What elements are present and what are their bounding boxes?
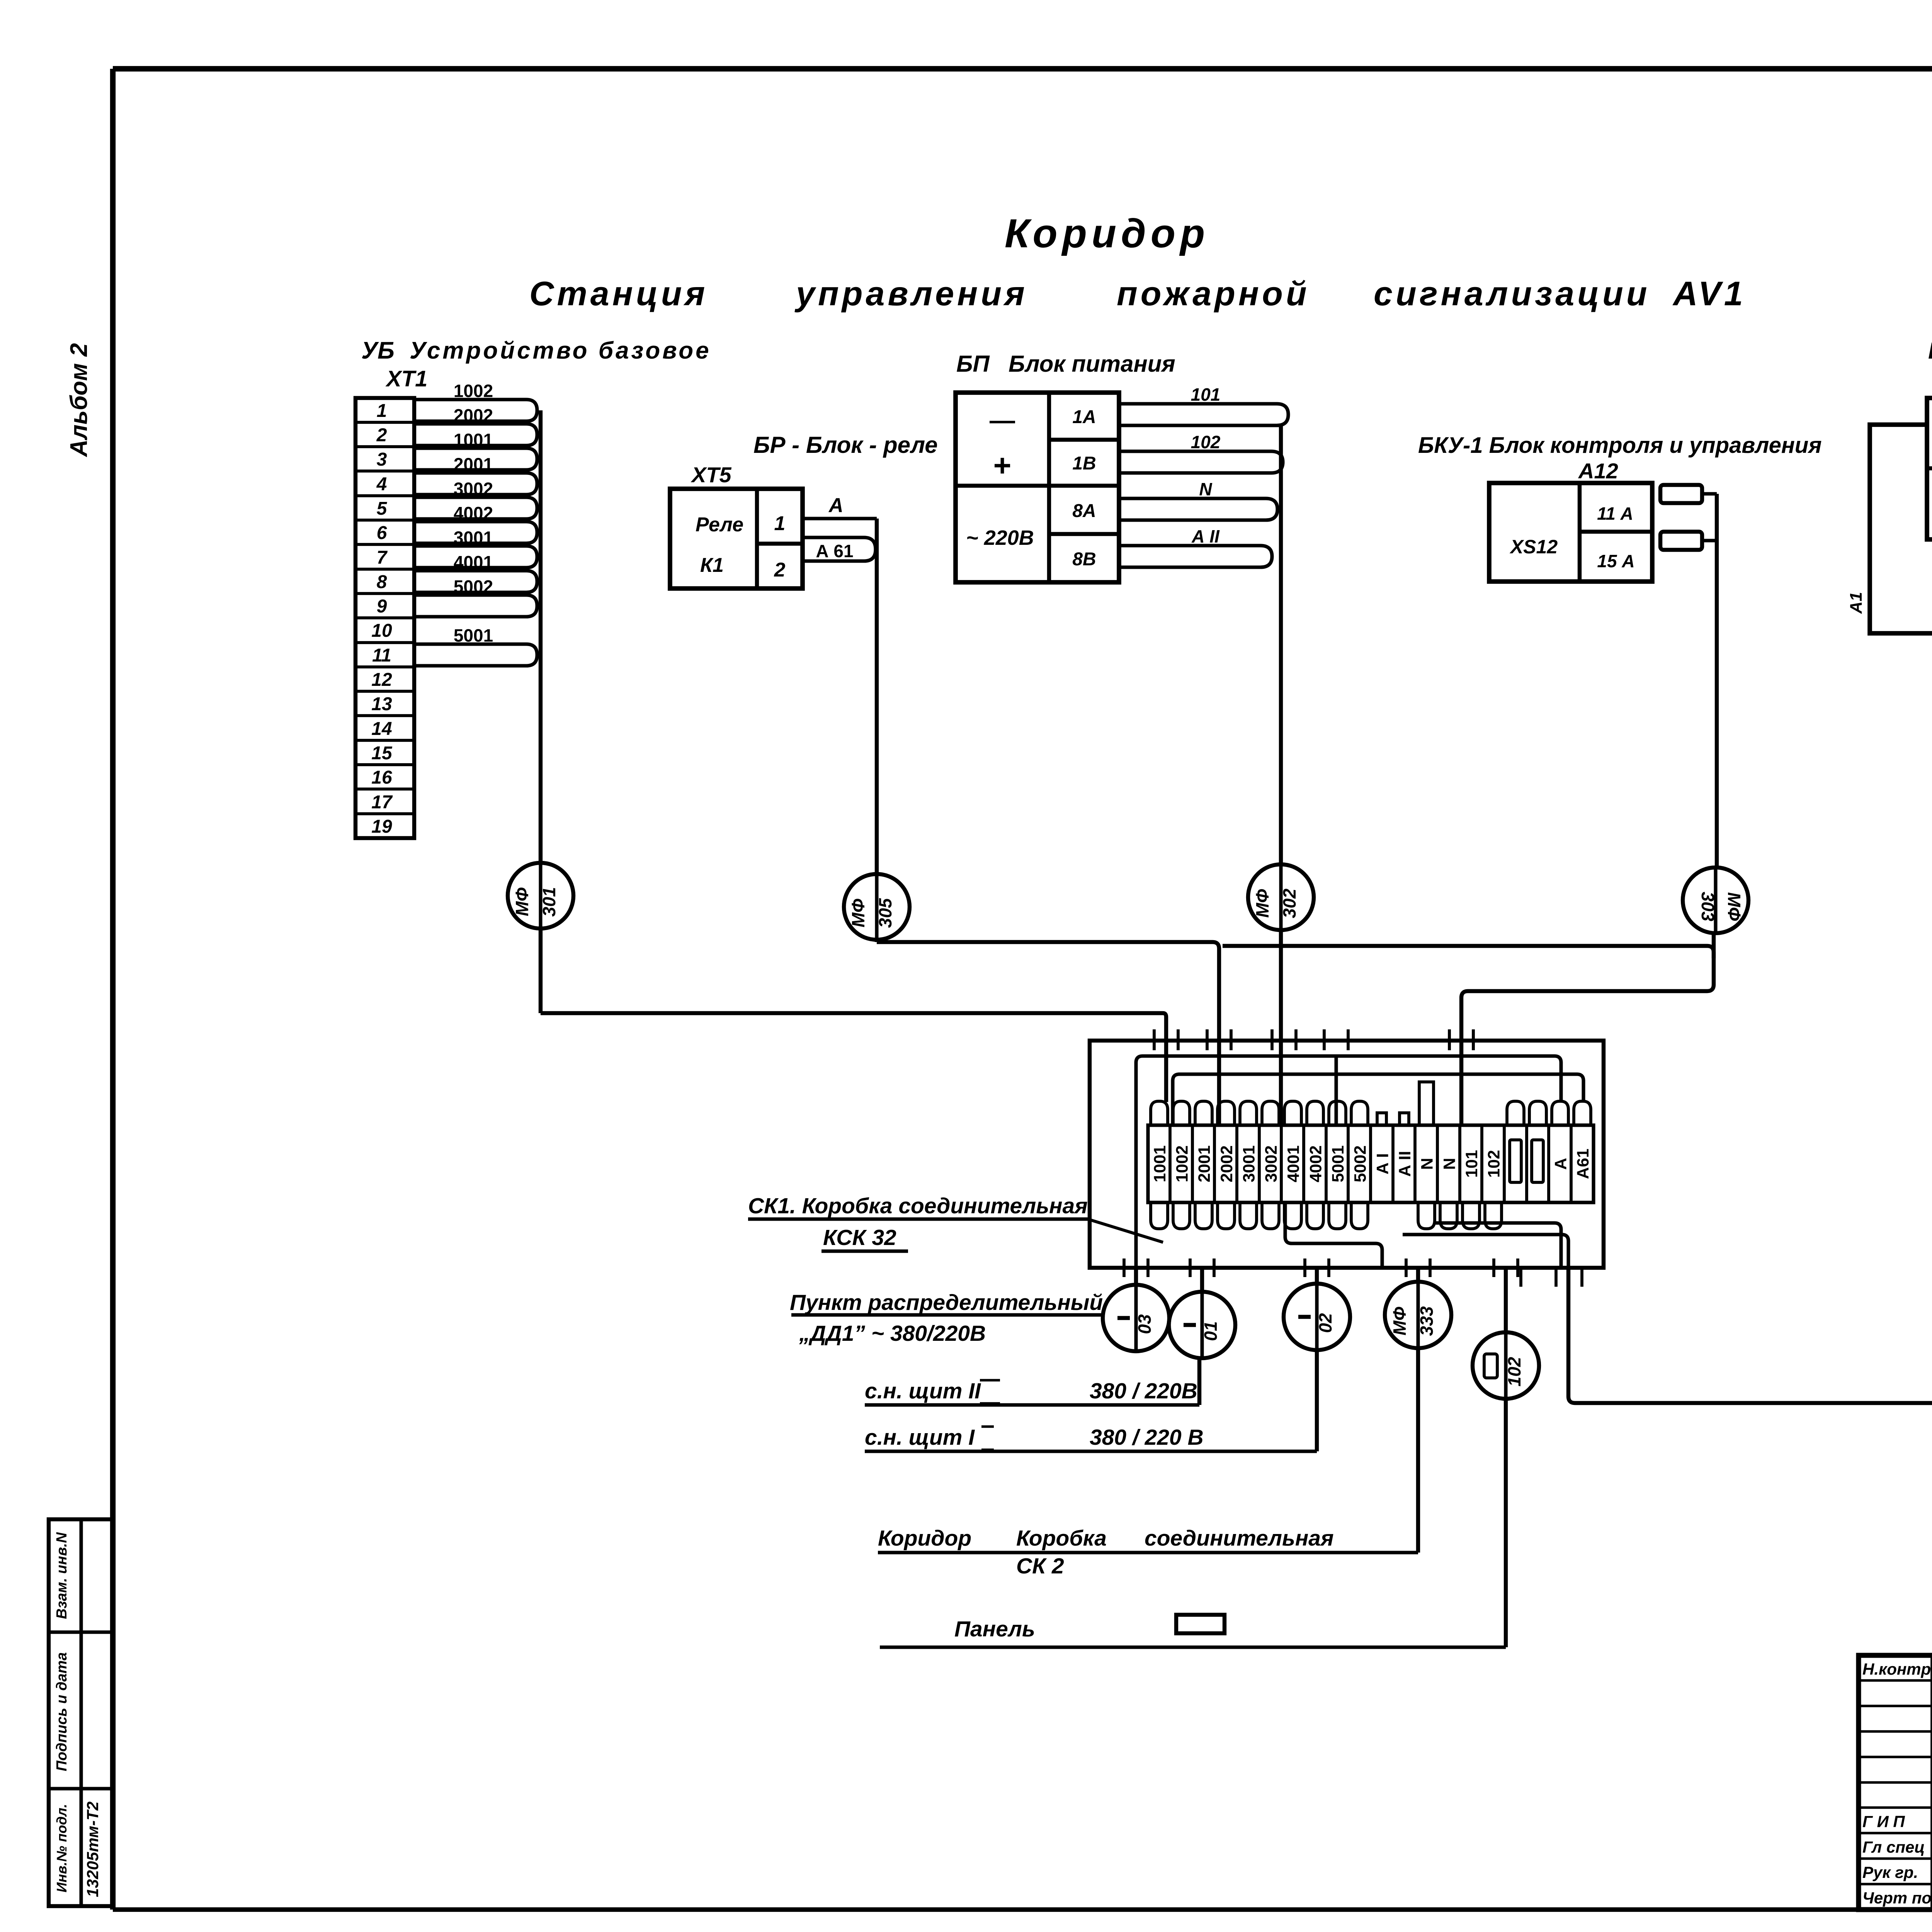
svg-text:8В: 8В [1072, 549, 1096, 570]
svg-text:15 А: 15 А [1597, 551, 1634, 571]
svg-text:9: 9 [377, 596, 387, 617]
svg-text:управления: управления [794, 274, 1028, 313]
svg-text:1: 1 [774, 512, 786, 535]
svg-text:Г И П: Г И П [1862, 1813, 1905, 1831]
svg-text:333: 333 [1417, 1306, 1437, 1336]
svg-text:2: 2 [774, 559, 786, 581]
svg-text:5: 5 [377, 498, 388, 519]
svg-text:Выпрямитель: Выпрямитель [1928, 338, 1932, 364]
svg-text:02: 02 [1315, 1313, 1335, 1333]
svg-text:2: 2 [376, 425, 387, 446]
svg-text:А I: А I [1373, 1153, 1392, 1175]
svg-text:305: 305 [875, 898, 895, 928]
svg-text:Станция: Станция [529, 274, 708, 313]
svg-text:3002: 3002 [1262, 1145, 1281, 1182]
svg-text:7: 7 [377, 548, 388, 568]
svg-text:„ДД1” ~ 380/220В: „ДД1” ~ 380/220В [799, 1321, 986, 1346]
svg-text:8: 8 [377, 572, 387, 592]
svg-text:4001: 4001 [454, 552, 493, 572]
svg-text:МФ: МФ [848, 899, 868, 927]
svg-text:МФ: МФ [1252, 889, 1272, 918]
svg-text:5001: 5001 [454, 626, 493, 646]
svg-text:3001: 3001 [454, 527, 493, 548]
svg-text:303: 303 [1698, 892, 1718, 922]
svg-text:N: N [1199, 479, 1212, 499]
svg-text:А1: А1 [1847, 592, 1866, 614]
svg-text:СК1. Коробка соединительная: СК1. Коробка соединительная [748, 1194, 1088, 1218]
svg-text:Пункт распределительный: Пункт распределительный [790, 1290, 1103, 1315]
svg-text:Реле: Реле [696, 514, 743, 536]
svg-text:3: 3 [377, 449, 387, 470]
svg-text:Подпись и дата: Подпись и дата [54, 1652, 70, 1771]
svg-text:Блок питания: Блок питания [1009, 351, 1175, 377]
svg-text:6: 6 [377, 523, 387, 543]
svg-text:16: 16 [371, 767, 392, 788]
svg-text:—: — [990, 406, 1015, 434]
svg-text:МФ: МФ [512, 888, 532, 916]
svg-text:101: 101 [1191, 384, 1221, 405]
svg-text:МФ: МФ [1389, 1307, 1410, 1335]
svg-text:13: 13 [371, 694, 392, 714]
svg-text:А: А [828, 494, 844, 517]
svg-text:Коридор: Коридор [878, 1526, 971, 1551]
svg-text:Инв.№ подл.: Инв.№ подл. [54, 1804, 70, 1892]
svg-text:А12: А12 [1578, 459, 1618, 483]
svg-text:1002: 1002 [1173, 1145, 1191, 1182]
svg-text:102: 102 [1485, 1150, 1503, 1178]
svg-text:сигнализации: сигнализации [1374, 274, 1650, 313]
svg-text:N: N [1440, 1158, 1459, 1170]
svg-text:2002: 2002 [454, 405, 493, 425]
svg-text:1В: 1В [1072, 453, 1096, 474]
svg-text:302: 302 [1279, 888, 1299, 918]
svg-text:3001: 3001 [1240, 1145, 1258, 1182]
svg-text:Взам. инв.N: Взам. инв.N [54, 1532, 70, 1619]
svg-text:13205тм-Т2: 13205тм-Т2 [83, 1801, 102, 1897]
svg-text:УБ: УБ [361, 337, 395, 364]
svg-text:380 / 220В: 380 / 220В [1090, 1379, 1197, 1403]
svg-text:1002: 1002 [454, 381, 493, 401]
svg-text:1: 1 [377, 401, 387, 421]
svg-text:8А: 8А [1072, 501, 1096, 521]
svg-text:4002: 4002 [454, 503, 493, 523]
svg-text:15: 15 [371, 743, 393, 764]
svg-text:3002: 3002 [454, 479, 493, 499]
svg-text:А: А [1552, 1158, 1570, 1170]
svg-text:1001: 1001 [454, 430, 493, 450]
svg-text:1А: 1А [1072, 407, 1096, 427]
svg-text:Рук гр.: Рук гр. [1862, 1863, 1918, 1881]
svg-text:301: 301 [539, 887, 559, 917]
svg-text:380 / 220 В: 380 / 220 В [1090, 1425, 1204, 1450]
svg-text:12: 12 [371, 670, 392, 690]
svg-text:5002: 5002 [454, 577, 493, 597]
svg-text:пожарной: пожарной [1117, 274, 1310, 313]
svg-text:Гл спец: Гл спец [1862, 1838, 1925, 1856]
svg-text:с.н. щит II: с.н. щит II [865, 1379, 981, 1403]
svg-text:Панель: Панель [954, 1617, 1035, 1641]
svg-text:Альбом 2: Альбом 2 [66, 343, 92, 457]
svg-text:соединительная: соединительная [1145, 1526, 1334, 1551]
svg-text:10: 10 [371, 621, 392, 641]
svg-text:11: 11 [372, 645, 391, 666]
svg-text:с.н. щит I: с.н. щит I [865, 1425, 975, 1450]
svg-text:Коридор: Коридор [1005, 211, 1209, 256]
svg-text:А II: А II [1191, 526, 1220, 546]
svg-text:101: 101 [1463, 1150, 1481, 1178]
svg-text:2002: 2002 [1218, 1145, 1236, 1182]
svg-text:Н.контр.: Н.контр. [1862, 1660, 1932, 1678]
svg-text:МФ: МФ [1724, 892, 1744, 921]
svg-text:К1: К1 [700, 554, 724, 577]
svg-text:СК 2: СК 2 [1016, 1554, 1064, 1578]
svg-text:03: 03 [1134, 1314, 1155, 1334]
svg-text:2001: 2001 [454, 454, 493, 474]
svg-text:Черт пон.: Черт пон. [1862, 1889, 1932, 1907]
svg-text:102: 102 [1504, 1357, 1524, 1386]
svg-text:4001: 4001 [1284, 1145, 1303, 1182]
svg-text:~ 220В: ~ 220В [966, 526, 1034, 549]
svg-text:БП: БП [956, 351, 990, 377]
svg-text:2001: 2001 [1195, 1145, 1214, 1182]
svg-text:XS12: XS12 [1509, 536, 1558, 558]
svg-text:+: + [993, 448, 1012, 483]
svg-text:N: N [1418, 1158, 1437, 1170]
svg-text:БР - Блок - реле: БР - Блок - реле [753, 432, 938, 458]
svg-text:4: 4 [376, 474, 387, 495]
svg-text:БКУ-1 Блок контроля и упра: БКУ-1 Блок контроля и управления [1418, 433, 1821, 458]
svg-text:5001: 5001 [1329, 1145, 1347, 1182]
svg-text:ХТ5: ХТ5 [690, 463, 732, 487]
svg-text:А 61: А 61 [816, 541, 853, 561]
svg-text:01: 01 [1201, 1321, 1221, 1341]
svg-text:4002: 4002 [1306, 1145, 1325, 1182]
svg-text:102: 102 [1191, 432, 1221, 452]
svg-text:AV1: AV1 [1672, 274, 1746, 313]
svg-text:ХТ1: ХТ1 [385, 366, 427, 391]
svg-text:14: 14 [371, 719, 392, 739]
svg-text:11 А: 11 А [1597, 503, 1633, 524]
svg-text:17: 17 [371, 792, 393, 813]
svg-text:5002: 5002 [1351, 1145, 1370, 1182]
svg-text:Коробка: Коробка [1016, 1526, 1107, 1551]
svg-text:А II: А II [1396, 1151, 1414, 1177]
svg-text:Устройство базовое: Устройство базовое [410, 337, 711, 364]
svg-text:1001: 1001 [1151, 1145, 1169, 1182]
svg-text:19: 19 [371, 816, 392, 837]
svg-text:А61: А61 [1574, 1149, 1592, 1179]
svg-text:КСК 32: КСК 32 [823, 1225, 896, 1250]
